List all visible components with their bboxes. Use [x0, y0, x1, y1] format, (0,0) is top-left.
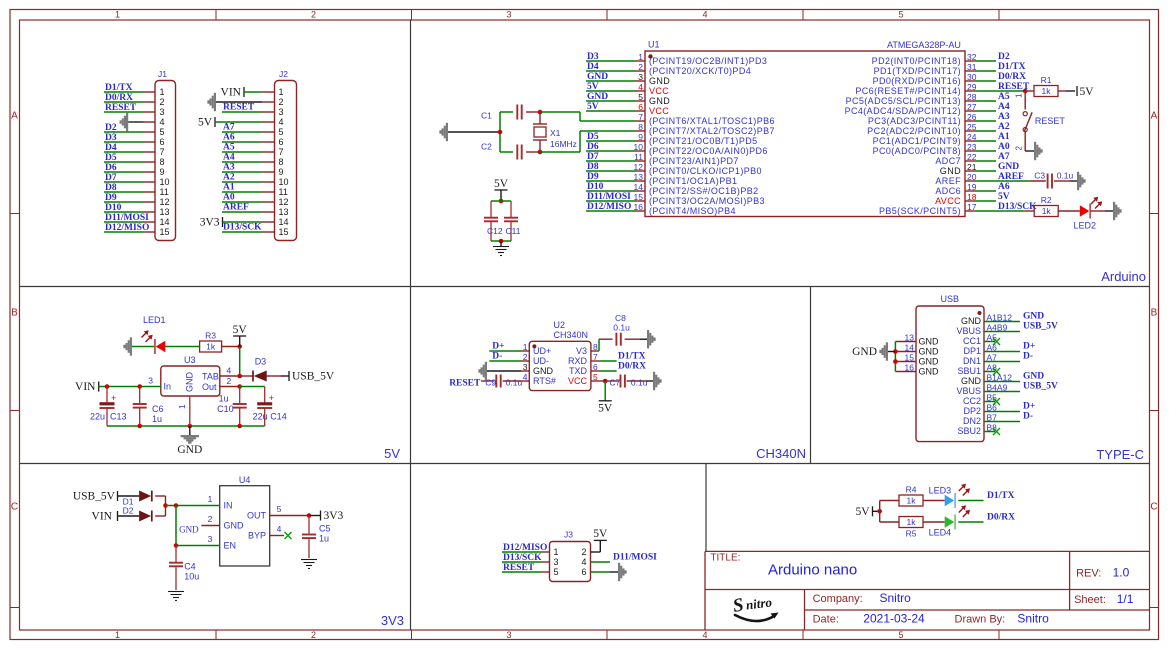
svg-text:GND: GND	[649, 96, 670, 106]
svg-text:1: 1	[115, 630, 120, 640]
svg-text:2: 2	[311, 630, 316, 640]
svg-text:PD2(INT0/PCINT18): PD2(INT0/PCINT18)	[872, 56, 961, 66]
svg-text:(PCINT22/OC0A/AIN0)PD6: (PCINT22/OC0A/AIN0)PD6	[649, 146, 768, 156]
svg-text:D1/TX: D1/TX	[998, 62, 1026, 72]
svg-text:PD0(RXD/PCINT16): PD0(RXD/PCINT16)	[873, 76, 961, 86]
svg-text:1/1: 1/1	[1117, 592, 1134, 606]
svg-text:3: 3	[208, 534, 213, 544]
svg-text:1k: 1k	[1042, 86, 1052, 96]
svg-text:D12/MISO: D12/MISO	[587, 202, 631, 212]
svg-text:LED4: LED4	[929, 528, 952, 538]
svg-text:6: 6	[593, 362, 598, 372]
svg-text:VIN: VIN	[92, 511, 113, 523]
svg-text:J2: J2	[279, 69, 288, 79]
svg-text:3: 3	[523, 362, 528, 372]
svg-text:C: C	[11, 502, 18, 513]
svg-text:2: 2	[227, 376, 232, 386]
svg-text:V3: V3	[576, 346, 587, 356]
svg-text:5V: 5V	[855, 506, 870, 518]
svg-text:D12/MISO: D12/MISO	[503, 543, 547, 553]
svg-text:CC2: CC2	[963, 396, 981, 406]
svg-text:(PCINT20/XCK/T0)PD4: (PCINT20/XCK/T0)PD4	[649, 66, 751, 76]
svg-text:12: 12	[160, 197, 170, 207]
svg-text:11: 11	[279, 187, 288, 197]
svg-text:BYP: BYP	[248, 531, 266, 541]
svg-text:3: 3	[506, 10, 511, 20]
svg-text:TYPE-C: TYPE-C	[1096, 447, 1144, 462]
svg-text:13: 13	[160, 207, 170, 217]
svg-text:1u: 1u	[219, 394, 229, 404]
svg-text:Drawn By:: Drawn By:	[955, 614, 1006, 626]
svg-text:RESET: RESET	[105, 103, 137, 113]
svg-text:D3: D3	[587, 52, 599, 62]
svg-text:A5: A5	[223, 143, 235, 153]
svg-text:C6: C6	[152, 404, 164, 414]
svg-text:GND: GND	[1023, 312, 1044, 322]
svg-text:3: 3	[554, 557, 559, 567]
svg-text:D7: D7	[105, 173, 117, 183]
svg-text:1: 1	[177, 404, 187, 409]
svg-text:6: 6	[160, 137, 165, 147]
svg-text:(PCINT1/OC1A)PB1: (PCINT1/OC1A)PB1	[649, 176, 737, 186]
svg-text:5V: 5V	[384, 446, 400, 461]
svg-text:CC1: CC1	[963, 336, 981, 346]
svg-text:A7: A7	[223, 123, 235, 133]
svg-text:J3: J3	[564, 530, 573, 540]
svg-text:Snitro: Snitro	[880, 591, 912, 605]
svg-text:8: 8	[279, 157, 284, 167]
svg-text:2: 2	[638, 62, 643, 72]
svg-text:VBUS: VBUS	[956, 326, 981, 336]
svg-text:4: 4	[523, 372, 528, 382]
svg-text:5: 5	[898, 630, 903, 640]
svg-text:DP1: DP1	[963, 346, 981, 356]
svg-text:Sheet:: Sheet:	[1074, 594, 1106, 606]
svg-text:A2: A2	[998, 122, 1010, 132]
svg-text:Company:: Company:	[813, 593, 863, 605]
svg-text:D+: D+	[1023, 342, 1035, 352]
svg-text:14: 14	[160, 217, 170, 227]
svg-text:D1/TX: D1/TX	[618, 352, 646, 362]
svg-text:RESET: RESET	[449, 378, 481, 388]
svg-text:11: 11	[160, 187, 169, 197]
svg-text:GND: GND	[919, 367, 940, 377]
svg-text:R5: R5	[906, 529, 917, 539]
svg-text:D3: D3	[105, 133, 117, 143]
svg-text:VCC: VCC	[568, 376, 588, 386]
svg-text:D1/TX: D1/TX	[987, 491, 1015, 501]
svg-text:(PCINT19/OC2B/INT1)PD3: (PCINT19/OC2B/INT1)PD3	[649, 56, 767, 66]
svg-text:C14: C14	[270, 412, 287, 422]
svg-text:USB: USB	[941, 294, 960, 304]
svg-text:5V: 5V	[198, 117, 213, 129]
svg-text:10: 10	[279, 177, 289, 187]
svg-text:Arduino nano: Arduino nano	[768, 562, 857, 579]
svg-text:D7: D7	[587, 152, 599, 162]
svg-text:3: 3	[160, 107, 165, 117]
svg-text:D2: D2	[105, 123, 117, 133]
svg-text:USB_5V: USB_5V	[292, 371, 335, 383]
svg-text:GND: GND	[919, 347, 940, 357]
svg-text:B: B	[1151, 308, 1158, 319]
svg-text:GND: GND	[177, 444, 202, 456]
svg-text:DP2: DP2	[963, 406, 981, 416]
svg-text:D11/MOSI: D11/MOSI	[613, 553, 657, 563]
svg-text:TAB: TAB	[202, 372, 219, 382]
svg-text:(PCINT2/SS#/OC1B)PB2: (PCINT2/SS#/OC1B)PB2	[649, 186, 759, 196]
svg-text:RESET: RESET	[223, 103, 255, 113]
svg-text:(PCINT0/CLKO/ICP1)PB0: (PCINT0/CLKO/ICP1)PB0	[649, 166, 762, 176]
svg-text:4: 4	[227, 366, 232, 376]
svg-text:GND: GND	[940, 166, 961, 176]
svg-text:12: 12	[279, 197, 289, 207]
svg-text:4: 4	[160, 117, 165, 127]
svg-text:0.1u: 0.1u	[613, 323, 630, 333]
svg-text:A0: A0	[223, 193, 235, 203]
svg-text:15: 15	[160, 227, 170, 237]
svg-text:5V: 5V	[593, 528, 608, 540]
svg-text:C8: C8	[615, 313, 626, 323]
svg-text:1: 1	[1015, 93, 1024, 98]
svg-text:1k: 1k	[907, 517, 917, 527]
svg-text:C9: C9	[485, 377, 496, 387]
svg-text:7: 7	[279, 147, 284, 157]
svg-text:Arduino: Arduino	[1101, 269, 1146, 284]
svg-text:U2: U2	[554, 320, 566, 330]
svg-text:D5: D5	[587, 132, 599, 142]
svg-text:S: S	[731, 594, 745, 617]
svg-text:5: 5	[160, 127, 165, 137]
svg-text:X1: X1	[550, 128, 561, 138]
svg-text:GND: GND	[587, 72, 608, 82]
svg-text:PC3(ADC3/PCINT11): PC3(ADC3/PCINT11)	[868, 116, 961, 126]
svg-text:1k: 1k	[907, 496, 917, 506]
svg-text:PC1(ADC1/PCINT9): PC1(ADC1/PCINT9)	[873, 136, 961, 146]
svg-text:D6: D6	[587, 142, 599, 152]
svg-text:6: 6	[279, 137, 284, 147]
svg-text:0.1u: 0.1u	[506, 377, 523, 387]
svg-text:GND: GND	[224, 521, 245, 531]
svg-text:In: In	[164, 382, 172, 392]
svg-text:ADC7: ADC7	[935, 156, 961, 166]
svg-text:2: 2	[581, 547, 586, 557]
svg-text:1: 1	[554, 547, 559, 557]
svg-text:15: 15	[905, 353, 915, 363]
svg-text:A1: A1	[998, 132, 1010, 142]
svg-text:3: 3	[638, 72, 643, 82]
svg-text:D2: D2	[123, 506, 134, 516]
svg-text:UD-: UD-	[533, 356, 549, 366]
svg-text:3V3: 3V3	[324, 510, 344, 522]
svg-text:USB_5V: USB_5V	[73, 491, 116, 503]
svg-text:D+: D+	[492, 342, 504, 352]
svg-text:14: 14	[905, 343, 915, 353]
svg-text:A6: A6	[223, 133, 235, 143]
svg-text:5V: 5V	[494, 178, 509, 190]
svg-text:RESET: RESET	[503, 563, 535, 573]
svg-text:VBUS: VBUS	[956, 386, 981, 396]
svg-text:GND: GND	[919, 357, 940, 367]
svg-text:(PCINT6/XTAL1/TOSC1)PB6: (PCINT6/XTAL1/TOSC1)PB6	[649, 116, 775, 126]
svg-text:D11/MOSI: D11/MOSI	[105, 213, 149, 223]
svg-text:nitro: nitro	[745, 594, 773, 612]
svg-text:7: 7	[638, 112, 643, 122]
svg-text:2: 2	[523, 352, 528, 362]
svg-text:5V: 5V	[598, 402, 613, 414]
svg-text:10: 10	[160, 177, 170, 187]
svg-text:D5: D5	[105, 153, 117, 163]
svg-text:C2: C2	[481, 142, 492, 152]
svg-text:0.1u: 0.1u	[631, 377, 648, 387]
svg-text:7: 7	[160, 147, 165, 157]
svg-text:D12/MISO: D12/MISO	[105, 223, 149, 233]
svg-text:4: 4	[702, 630, 707, 640]
svg-text:15: 15	[279, 227, 289, 237]
svg-text:ATMEGA328P-AU: ATMEGA328P-AU	[887, 40, 961, 50]
svg-text:D3: D3	[255, 357, 267, 367]
svg-text:D-: D-	[1023, 352, 1033, 362]
svg-text:A: A	[1151, 111, 1158, 122]
svg-text:U4: U4	[239, 475, 251, 485]
svg-text:A1: A1	[223, 183, 235, 193]
svg-text:5: 5	[593, 372, 598, 382]
svg-text:D-: D-	[1023, 412, 1033, 422]
svg-text:AVCC: AVCC	[935, 196, 961, 206]
svg-text:4: 4	[277, 524, 282, 534]
svg-text:C3: C3	[1034, 170, 1045, 180]
svg-text:2: 2	[311, 10, 316, 20]
svg-text:A3: A3	[998, 112, 1010, 122]
svg-text:D0/RX: D0/RX	[105, 93, 133, 103]
svg-text:5V: 5V	[1080, 86, 1095, 98]
svg-text:D13/SCK: D13/SCK	[223, 223, 262, 233]
svg-text:9: 9	[638, 132, 643, 142]
svg-text:GND: GND	[1023, 372, 1044, 382]
svg-text:5: 5	[898, 10, 903, 20]
svg-text:14: 14	[279, 217, 289, 227]
svg-text:1: 1	[208, 494, 213, 504]
svg-text:1u: 1u	[319, 534, 329, 544]
svg-text:A3: A3	[223, 163, 235, 173]
svg-text:AREF: AREF	[935, 176, 961, 186]
svg-text:2: 2	[208, 514, 213, 524]
svg-text:1: 1	[279, 87, 284, 97]
svg-text:CH340N: CH340N	[756, 446, 806, 461]
svg-text:8: 8	[593, 342, 598, 352]
svg-text:UD+: UD+	[533, 346, 551, 356]
svg-text:GND: GND	[852, 346, 877, 358]
svg-text:C5: C5	[319, 524, 331, 534]
svg-text:5: 5	[554, 567, 559, 577]
svg-text:+: +	[111, 393, 116, 403]
svg-text:13: 13	[279, 207, 289, 217]
svg-text:LED2: LED2	[1074, 221, 1097, 231]
svg-text:VCC: VCC	[649, 86, 669, 96]
svg-text:PB5(SCK/PCINT5): PB5(SCK/PCINT5)	[879, 206, 961, 216]
svg-text:VIN: VIN	[75, 381, 96, 393]
svg-text:RXD: RXD	[568, 356, 588, 366]
svg-text:(PCINT3/OC2A/MOSI)PB3: (PCINT3/OC2A/MOSI)PB3	[649, 196, 765, 206]
svg-text:3V3: 3V3	[200, 217, 220, 229]
svg-text:EN: EN	[224, 541, 237, 551]
svg-text:D10: D10	[587, 182, 604, 192]
svg-text:D10: D10	[105, 203, 122, 213]
svg-text:R2: R2	[1041, 195, 1052, 205]
svg-text:D+: D+	[1023, 402, 1035, 412]
svg-text:ADC6: ADC6	[935, 186, 961, 196]
svg-text:GND: GND	[961, 376, 982, 386]
svg-text:5V: 5V	[998, 192, 1010, 202]
svg-text:3: 3	[148, 376, 153, 386]
svg-text:U3: U3	[184, 355, 196, 365]
svg-text:PC2(ADC2/PCINT10): PC2(ADC2/PCINT10)	[867, 126, 961, 136]
svg-text:A4: A4	[223, 153, 235, 163]
svg-text:A5: A5	[998, 92, 1010, 102]
svg-text:1: 1	[115, 10, 120, 20]
svg-text:TXD: TXD	[569, 366, 588, 376]
svg-text:9: 9	[160, 167, 165, 177]
svg-text:13: 13	[905, 333, 915, 343]
svg-text:5: 5	[638, 92, 643, 102]
svg-text:C4: C4	[184, 562, 196, 572]
svg-text:4: 4	[702, 10, 707, 20]
svg-text:1k: 1k	[206, 342, 216, 352]
svg-text:8: 8	[638, 122, 643, 132]
svg-text:Out: Out	[202, 382, 217, 392]
svg-text:(PCINT7/XTAL2/TOSC2)PB7: (PCINT7/XTAL2/TOSC2)PB7	[649, 126, 775, 136]
svg-text:C11: C11	[506, 226, 521, 236]
svg-text:D4: D4	[105, 143, 117, 153]
svg-text:C7: C7	[609, 377, 620, 387]
svg-text:GND: GND	[961, 316, 982, 326]
svg-text:PC4(ADC4/SDA/PCINT12): PC4(ADC4/SDA/PCINT12)	[845, 106, 961, 116]
svg-text:SBU1: SBU1	[957, 366, 981, 376]
svg-text:D0/RX: D0/RX	[987, 513, 1015, 523]
svg-text:1: 1	[638, 52, 643, 62]
svg-text:22u: 22u	[90, 412, 105, 422]
svg-text:(PCINT23/AIN1)PD7: (PCINT23/AIN1)PD7	[649, 156, 739, 166]
svg-text:A7: A7	[998, 152, 1010, 162]
svg-text:LED1: LED1	[143, 315, 166, 325]
svg-text:CH340N: CH340N	[554, 330, 589, 340]
svg-text:(PCINT4/MISO)PB4: (PCINT4/MISO)PB4	[649, 206, 736, 216]
svg-text:GND: GND	[998, 162, 1019, 172]
svg-text:2021-03-24: 2021-03-24	[863, 612, 925, 626]
svg-text:5: 5	[277, 504, 282, 514]
svg-text:A0: A0	[998, 142, 1010, 152]
svg-text:D13/SCK: D13/SCK	[503, 553, 542, 563]
svg-text:D8: D8	[587, 162, 599, 172]
svg-text:GND: GND	[919, 337, 940, 347]
svg-text:GND: GND	[533, 366, 554, 376]
svg-text:4: 4	[279, 117, 284, 127]
svg-text:C: C	[1150, 502, 1157, 513]
svg-text:R3: R3	[205, 331, 216, 341]
svg-text:D4: D4	[587, 62, 599, 72]
svg-text:+: +	[269, 393, 274, 403]
svg-text:J1: J1	[158, 69, 167, 79]
svg-text:OUT: OUT	[247, 511, 267, 521]
svg-text:3V3: 3V3	[381, 613, 404, 628]
svg-text:D2: D2	[998, 52, 1010, 62]
svg-text:D0/RX: D0/RX	[998, 72, 1026, 82]
svg-text:DN1: DN1	[963, 356, 981, 366]
svg-text:3: 3	[506, 630, 511, 640]
svg-text:0.1u: 0.1u	[1057, 170, 1074, 180]
svg-text:USB_5V: USB_5V	[1023, 322, 1058, 332]
svg-text:U1: U1	[648, 40, 660, 50]
svg-text:(PCINT21/OC0B/T1)PD5: (PCINT21/OC0B/T1)PD5	[649, 136, 758, 146]
svg-text:1.0: 1.0	[1113, 566, 1130, 580]
svg-text:C12: C12	[487, 226, 503, 236]
svg-text:3: 3	[279, 107, 284, 117]
svg-text:16: 16	[905, 363, 915, 373]
svg-text:AREF: AREF	[998, 172, 1024, 182]
svg-text:D9: D9	[105, 193, 117, 203]
svg-text:B: B	[11, 308, 18, 319]
svg-text:C10: C10	[217, 404, 234, 414]
svg-text:D0/RX: D0/RX	[618, 362, 646, 372]
svg-text:1: 1	[523, 342, 528, 352]
svg-text:1: 1	[160, 87, 165, 97]
svg-text:A4: A4	[998, 102, 1010, 112]
svg-text:22u: 22u	[253, 412, 268, 422]
svg-text:1u: 1u	[152, 414, 162, 424]
svg-text:6: 6	[638, 102, 643, 112]
svg-text:A6: A6	[998, 182, 1010, 192]
svg-text:REV:: REV:	[1076, 568, 1101, 580]
svg-text:TITLE:: TITLE:	[710, 553, 740, 564]
svg-text:9: 9	[279, 167, 284, 177]
svg-text:5: 5	[279, 127, 284, 137]
svg-text:PD1(TXD/PCINT17): PD1(TXD/PCINT17)	[874, 66, 961, 76]
svg-text:2: 2	[1015, 146, 1024, 151]
svg-text:16MHz: 16MHz	[550, 139, 577, 149]
svg-text:D9: D9	[587, 172, 599, 182]
svg-text:GND: GND	[587, 92, 608, 102]
svg-text:4: 4	[638, 82, 643, 92]
svg-text:5V: 5V	[587, 102, 599, 112]
svg-text:RESET: RESET	[1035, 116, 1066, 126]
svg-text:6: 6	[581, 567, 586, 577]
svg-text:8: 8	[160, 157, 165, 167]
svg-text:Snitro: Snitro	[1017, 612, 1049, 626]
svg-text:10u: 10u	[184, 572, 199, 582]
svg-text:VIN: VIN	[221, 87, 242, 99]
svg-text:GND: GND	[649, 76, 670, 86]
svg-text:4: 4	[581, 557, 586, 567]
svg-text:DN2: DN2	[963, 416, 981, 426]
svg-text:AREF: AREF	[223, 203, 249, 213]
svg-text:PC5(ADC5/SCL/PCINT13): PC5(ADC5/SCL/PCINT13)	[846, 96, 961, 106]
svg-text:D-: D-	[492, 352, 502, 362]
svg-text:C13: C13	[110, 412, 127, 422]
svg-text:5V: 5V	[233, 324, 248, 336]
svg-text:1k: 1k	[1042, 206, 1052, 216]
svg-text:C1: C1	[481, 111, 492, 121]
svg-text:GND: GND	[179, 525, 199, 535]
svg-text:7: 7	[593, 352, 598, 362]
svg-text:VCC: VCC	[649, 106, 669, 116]
svg-text:A: A	[11, 111, 18, 122]
svg-text:D8: D8	[105, 183, 117, 193]
svg-text:IN: IN	[224, 501, 233, 511]
svg-text:R1: R1	[1041, 75, 1052, 85]
svg-text:D6: D6	[105, 163, 117, 173]
svg-text:GND: GND	[185, 372, 195, 393]
svg-text:D1/TX: D1/TX	[105, 83, 133, 93]
svg-text:D11/MOSI: D11/MOSI	[587, 192, 631, 202]
